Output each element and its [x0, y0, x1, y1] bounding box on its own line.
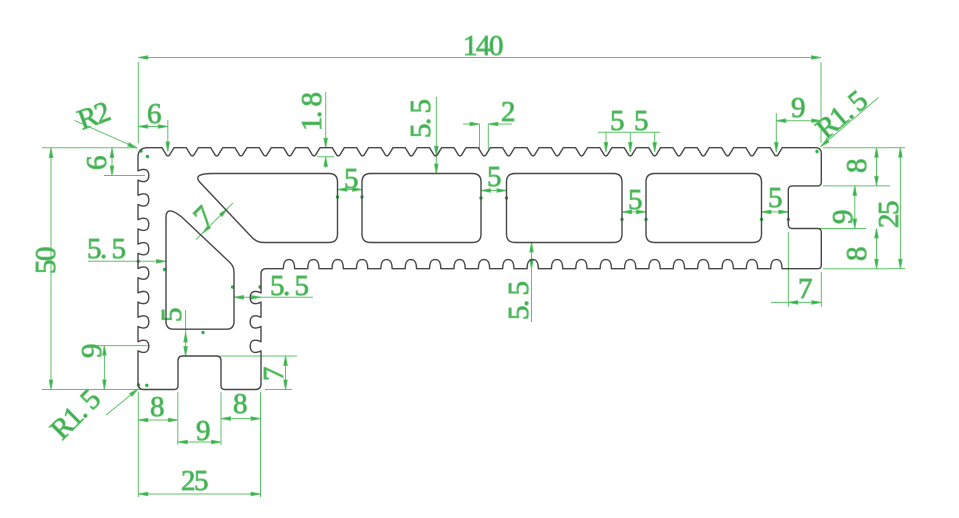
svg-text:R2: R2	[73, 96, 113, 137]
svg-text:8: 8	[841, 159, 873, 173]
svg-text:7: 7	[258, 367, 290, 381]
svg-text:8: 8	[841, 247, 873, 261]
dimension 6 (top edge to first left groove)	[81, 148, 145, 176]
dimension 8 (right foot width)	[221, 388, 261, 497]
leg hollow chamber (pentagonal)	[166, 211, 234, 329]
corner center marks	[137, 149, 819, 387]
svg-text:9: 9	[196, 415, 210, 447]
svg-text:6: 6	[147, 98, 161, 130]
hollow chamber 3	[507, 174, 623, 243]
svg-text:5: 5	[487, 161, 501, 193]
hollow chamber 2	[362, 174, 481, 243]
svg-text:5: 5	[610, 105, 624, 137]
dimension 5 (web between chamber 1 and 2)	[336, 163, 364, 199]
svg-text:25: 25	[873, 201, 905, 228]
dimension 8 (right edge below notch)	[823, 229, 890, 269]
dimension 8 (right edge above notch)	[823, 148, 890, 186]
svg-text:50: 50	[30, 247, 62, 274]
svg-text:5. 5: 5. 5	[405, 100, 437, 139]
svg-text:6: 6	[81, 156, 113, 170]
svg-text:140: 140	[463, 30, 503, 62]
svg-text:R1. 5: R1. 5	[810, 85, 874, 146]
dimension 1.8 (groove depth)	[296, 92, 334, 168]
svg-text:5: 5	[628, 184, 642, 216]
dimension 5.5 (bottom wall thickness)	[503, 243, 535, 323]
svg-text:8: 8	[150, 391, 164, 423]
dimension 8 (left foot width)	[138, 391, 178, 497]
dimension 9 (last groove to right edge)	[775, 92, 822, 152]
dimension 7 (foot channel height)	[258, 356, 292, 390]
profile outline (decking board cross-section)	[138, 148, 821, 390]
radius leader R2 (top-left corner)	[73, 96, 137, 148]
svg-text:5. 5: 5. 5	[87, 233, 126, 265]
dimension 140 (overall width)	[138, 30, 821, 143]
svg-text:9: 9	[791, 92, 805, 124]
dimension 5.5 (leg inner wall thickness)	[231, 270, 313, 302]
svg-text:5: 5	[156, 308, 188, 322]
radius leader R1.5 (top-right corner)	[810, 85, 879, 147]
svg-text:8: 8	[233, 388, 247, 420]
dimension 6 (top-left edge to first groove)	[138, 98, 169, 152]
dimension 50 (overall height)	[30, 148, 151, 390]
dimension 5 (wall below leg chamber)	[156, 308, 297, 356]
svg-text:5: 5	[344, 163, 358, 195]
dimension 5.5 (top wall thickness)	[405, 97, 438, 174]
dimension 7 (diagonal web thickness)	[187, 200, 233, 239]
svg-text:5: 5	[634, 105, 648, 137]
dimension 5 (web between chamber 2 and 3)	[479, 161, 508, 200]
dimension 5 (web between chamber 3 and 4)	[620, 184, 647, 221]
svg-text:9: 9	[827, 210, 859, 224]
dimension 25 (board thickness)	[873, 148, 905, 269]
svg-text:5. 5: 5. 5	[503, 282, 535, 321]
dimension 9 (last left groove to bottom)	[76, 344, 148, 390]
svg-text:5. 5: 5. 5	[270, 270, 309, 302]
dimension 5 (web before right notch)	[760, 182, 790, 221]
dimension 2 (groove top width)	[463, 96, 514, 149]
svg-text:R1. 5: R1. 5	[44, 383, 106, 445]
svg-text:2: 2	[501, 96, 514, 128]
dimension 25 (leg width)	[138, 465, 260, 497]
svg-text:25: 25	[181, 465, 208, 497]
svg-text:9: 9	[76, 344, 108, 358]
svg-text:5: 5	[768, 182, 782, 214]
dimension 9 (foot channel width)	[178, 415, 221, 447]
hollow chamber 4	[646, 174, 762, 243]
dimension 5.5 (left wall thickness)	[87, 233, 166, 271]
svg-text:7: 7	[798, 273, 812, 305]
svg-text:1. 8: 1. 8	[296, 93, 328, 132]
dimensions 5, 5 (groove pitch)	[598, 105, 660, 152]
radius leader R1.5 (bottom-left corner)	[44, 383, 138, 445]
svg-text:7: 7	[187, 200, 220, 233]
hollow chamber 1 (with diagonal left wall)	[198, 174, 338, 243]
dimension 9 (notch height)	[791, 186, 866, 229]
dimension 7 (notch depth)	[771, 232, 821, 307]
